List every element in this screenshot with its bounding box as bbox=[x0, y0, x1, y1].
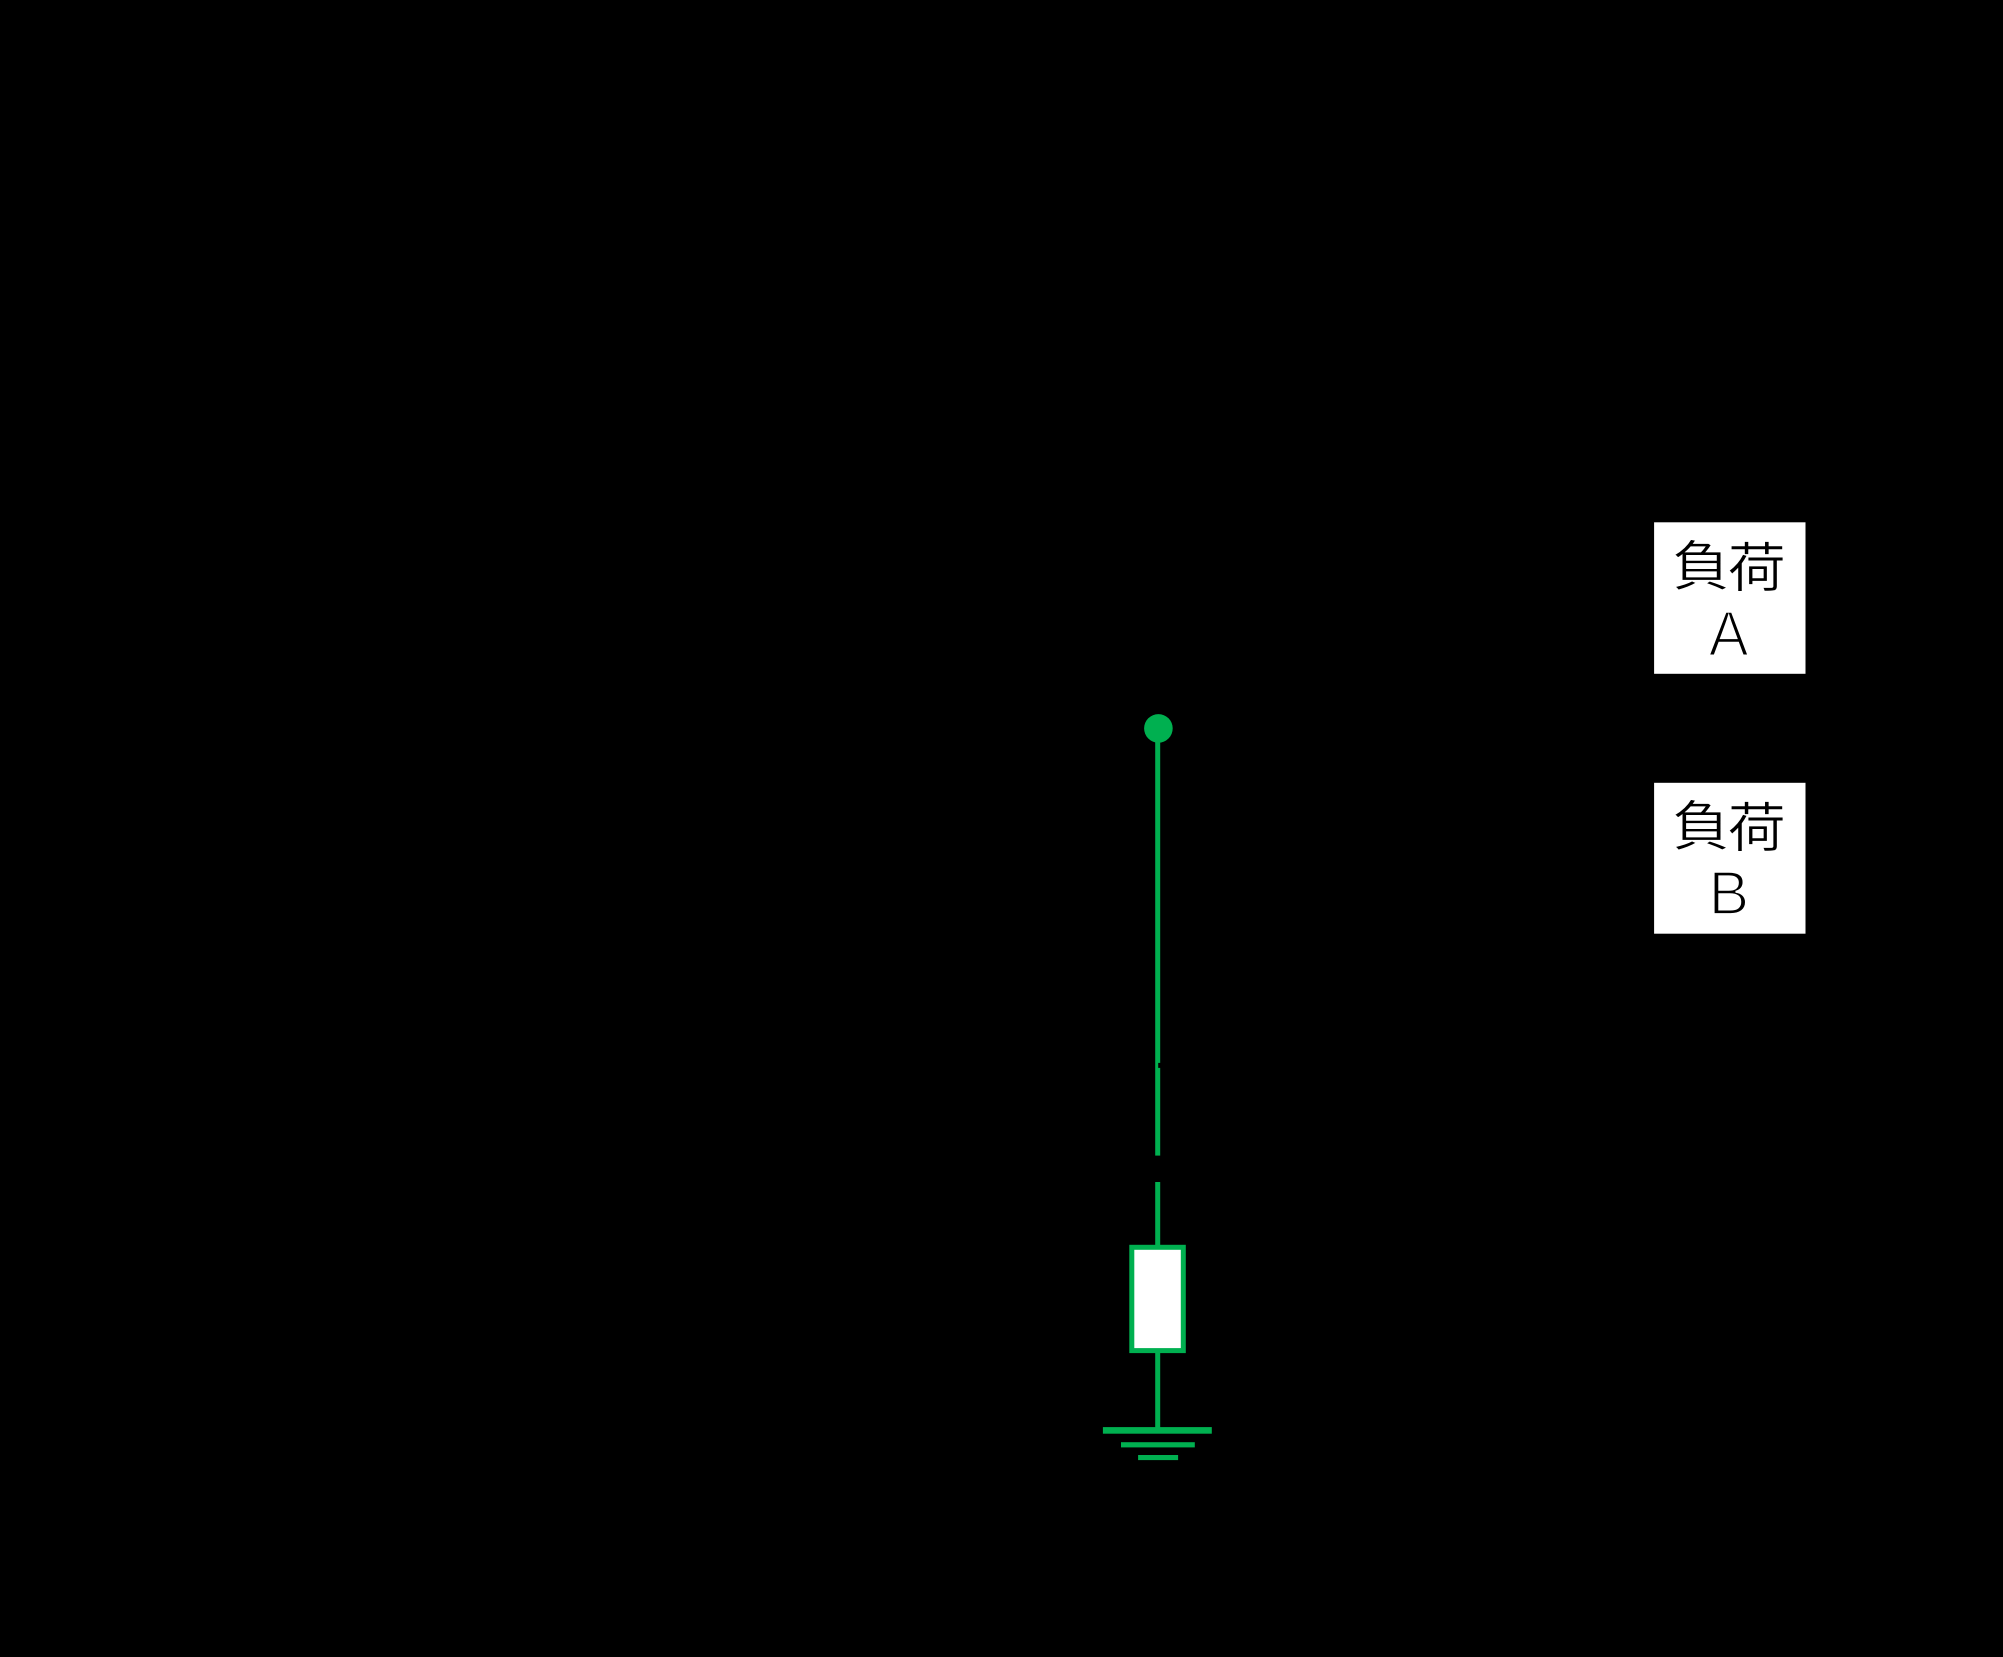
load box B (負荷B) bbox=[1654, 783, 1805, 934]
black overlay notch on wire W1 (hidden black annotation crossing) bbox=[1158, 1063, 1160, 1068]
label 荷 of load B bbox=[1729, 801, 1783, 851]
wire W1: node N1 down to upper break bbox=[1155, 728, 1160, 1155]
resistor R (grounding resistor, green outline, white fill) bbox=[1132, 1247, 1184, 1350]
label A of load A bbox=[1709, 612, 1749, 656]
wire W3: resistor R bottom to ground bbox=[1155, 1353, 1160, 1428]
label 負 of load A bbox=[1675, 539, 1727, 589]
ground symbol E (3 green bars) bbox=[1103, 1427, 1212, 1460]
wire W2: below break down to resistor R top bbox=[1155, 1182, 1160, 1247]
label 荷 of load A bbox=[1729, 541, 1783, 591]
label 負 of load B bbox=[1675, 799, 1727, 849]
node N1 (green junction dot on hidden bus) bbox=[1144, 714, 1173, 743]
load box A (負荷A) bbox=[1654, 522, 1805, 674]
label B of load B bbox=[1714, 872, 1746, 914]
